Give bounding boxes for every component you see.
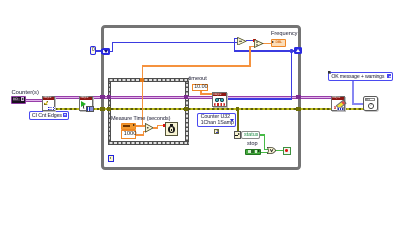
left shift register: [102, 48, 110, 54]
coercion dot wait: [163, 124, 166, 127]
wire: purple task Start->Read: [92, 96, 213, 99]
stop label: [247, 141, 258, 148]
stop button terminal: [245, 149, 261, 156]
divide node: [254, 39, 264, 48]
wire: status to OR: [260, 134, 266, 135]
wire: purple task Read->Clear: [227, 96, 332, 99]
right shift register: [294, 47, 302, 54]
tunnel purple seq-left: [107, 95, 112, 100]
constant 10.00: [192, 84, 208, 91]
wire: stop to OR: [261, 152, 269, 153]
tunnel error loop-right: [296, 107, 301, 112]
sequence top border: [108, 78, 189, 83]
constant 1 (samples): [214, 129, 219, 135]
OR gate: [267, 147, 276, 154]
wire: 1000 to multiply: [136, 134, 144, 136]
wire: divide out to Frequency: [263, 43, 271, 45]
wire: vertical down to Read output: [291, 50, 292, 99]
constant 1000: [121, 130, 136, 138]
junction dot on count net: [290, 49, 293, 52]
junction dot error: [236, 107, 240, 111]
wire: 10.00 down to Read: [200, 91, 202, 95]
control Measure Time: [121, 123, 136, 129]
wire: multiply out to Wait: [153, 127, 158, 129]
wire: error Create->Start: [55, 108, 80, 110]
wire: Read output horizontal: [227, 98, 292, 99]
wire: orange vertical through sequence top: [142, 65, 144, 125]
tunnel blue loop-left: [101, 49, 104, 55]
wire: OR to condition terminal: [276, 150, 283, 151]
tunnel orange seq-top: [140, 78, 144, 82]
Frequency label: [271, 31, 297, 38]
Wait (ms): [165, 122, 177, 136]
coercion dot divide: [253, 39, 256, 42]
junction dot orange: [141, 125, 144, 128]
tunnel error seq-left: [107, 107, 112, 112]
timeout label: [189, 76, 207, 83]
while loop: [101, 25, 301, 169]
wire: count net top horizontal: [234, 50, 295, 51]
label Counter(s): [12, 90, 39, 97]
constant 0: [90, 46, 96, 54]
dropdown CI Cnt Edges: [29, 111, 69, 119]
multiply node: [145, 123, 154, 133]
VI Simple Error Handler: [363, 96, 378, 111]
tunnel purple seq-right: [184, 95, 189, 100]
VI DAQmx Create Virtual Channel: [42, 96, 55, 111]
flag on OK message constant: [328, 71, 331, 74]
wire: left SR up and right to subtract: [109, 51, 113, 52]
subtract node: [237, 37, 247, 46]
unbundle by name (status): [234, 131, 241, 138]
tunnel error loop-left: [100, 107, 105, 112]
Measure Time label: [111, 116, 170, 123]
sequence right border: [185, 82, 189, 141]
tunnel purple loop-right: [296, 95, 301, 100]
wire: vertical to subtract top input: [234, 38, 235, 51]
tunnel purple loop-left: [100, 95, 105, 100]
Frequency indicator: [271, 39, 287, 46]
wire: subtract out to divide: [246, 40, 254, 41]
dropdown OK message + warnings: [328, 72, 393, 81]
tunnel error seq-right: [184, 107, 189, 112]
wire: OK message constant down to error handler (blue): [352, 81, 354, 105]
VI DAQmx Start Task: [79, 96, 93, 111]
loop iteration terminal: [108, 155, 115, 162]
wire: error branch down to unbundle: [237, 110, 239, 132]
VI DAQmx Read: [212, 92, 227, 107]
sequence left border: [108, 82, 112, 141]
control terminal Counter(s): [11, 96, 26, 104]
wire: error Start->loop->Clear: [92, 108, 332, 110]
wire: error Clear->handler: [344, 108, 364, 110]
wire: counter control to Create VI (violet): [25, 99, 43, 102]
wire: measure-time control to multiply: [136, 125, 146, 127]
sequence bottom border: [108, 141, 189, 146]
dropdown Counter U32 1Chan 1Samp: [197, 113, 236, 127]
wire: 0 constant to left shift register: [96, 50, 104, 51]
VI DAQmx Clear Task: [331, 96, 345, 111]
loop condition terminal: [283, 147, 291, 155]
wire: orange up into divide bottom input: [249, 46, 251, 67]
wire: purple task Create->Start: [55, 96, 80, 99]
wire: orange long horizontal: [142, 65, 251, 67]
